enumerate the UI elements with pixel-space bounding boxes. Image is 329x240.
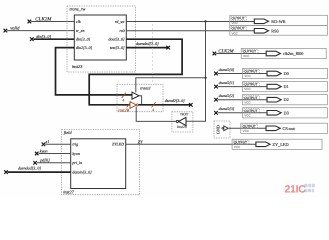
svg-text:OUTPUT: OUTPUT xyxy=(243,124,256,128)
svg-text:VCC: VCC xyxy=(243,54,250,58)
svg-text:din[3..0]: din[3..0] xyxy=(76,37,91,42)
input stub s1 xyxy=(42,139,71,146)
svg-text:ZY_LED: ZY_LED xyxy=(272,142,288,147)
svg-text:datain[3..0]: datain[3..0] xyxy=(72,170,92,175)
svg-text:D0: D0 xyxy=(284,71,289,76)
svg-text:NOT: NOT xyxy=(180,113,188,117)
svg-text:D2: D2 xyxy=(284,97,289,102)
tri-state buffer upper (trans1) xyxy=(132,92,139,99)
svg-text:inst26: inst26 xyxy=(177,124,187,129)
transceiver trans1 (inst25) xyxy=(117,84,163,112)
svg-text:OUTPUT: OUTPUT xyxy=(234,140,247,144)
module trans_rw (inst23) xyxy=(67,6,135,72)
svg-text:OUTPUT: OUTPUT xyxy=(244,83,257,87)
svg-text:VCC: VCC xyxy=(244,100,251,104)
svg-text:21IC: 21IC xyxy=(285,183,307,195)
svg-text:VCC: VCC xyxy=(232,31,239,35)
svg-text:RS0: RS0 xyxy=(271,28,278,33)
input bus dsendad[3..0] xyxy=(4,166,71,174)
svg-text:D1: D1 xyxy=(284,84,289,89)
ground symbol GND xyxy=(214,121,230,138)
input bus din[3..0] xyxy=(30,34,74,41)
svg-text:4: 4 xyxy=(127,108,129,112)
output pin D3 xyxy=(243,108,328,118)
net stub dsend2[3] xyxy=(214,107,267,114)
svg-text:kyon: kyon xyxy=(40,148,48,153)
svg-text:dsend2[0]: dsend2[0] xyxy=(219,68,235,72)
svg-text:dsend2[2]: dsend2[2] xyxy=(219,94,235,98)
net stub dsend2[1] xyxy=(214,81,267,88)
svg-text:inst27: inst27 xyxy=(63,189,75,194)
svg-text:CLK2M: CLK2M xyxy=(218,49,234,55)
svg-text:D3: D3 xyxy=(284,110,289,115)
svg-text:4: 4 xyxy=(152,108,154,112)
wire enable to trans1 upper buffer xyxy=(136,78,206,93)
sheet border dashed line xyxy=(152,24,154,84)
output pin clk2m_f000 xyxy=(241,48,326,58)
svg-text:trig: trig xyxy=(72,142,78,147)
svg-text:dsend2[1]: dsend2[1] xyxy=(219,81,235,85)
input stub pd[0] xyxy=(33,158,70,165)
svg-text:clk2m_f000: clk2m_f000 xyxy=(283,51,304,56)
svg-text:pri_in: pri_in xyxy=(71,160,82,165)
svg-text:VCC: VCC xyxy=(244,113,251,117)
output pin D2 xyxy=(243,95,328,105)
svg-text:trans1: trans1 xyxy=(140,86,151,91)
input stub CLK2M xyxy=(28,17,75,24)
svg-text:OUTPUT: OUTPUT xyxy=(243,50,256,54)
svg-text:OUTPUT: OUTPUT xyxy=(232,17,245,21)
svg-text:inst23: inst23 xyxy=(72,64,84,69)
wire rd_wr to output pin xyxy=(126,20,254,22)
wire rd_wr control vertical xyxy=(186,22,207,122)
wire NOT output to lower buffer enable xyxy=(136,107,176,122)
bus width slash 4 on dsend2 output xyxy=(152,102,156,112)
svg-text:field: field xyxy=(64,130,73,135)
svg-text:OUTPUT: OUTPUT xyxy=(232,27,245,31)
wire GND to CS-out pin xyxy=(228,127,266,129)
svg-text:rd_wr: rd_wr xyxy=(115,19,125,24)
svg-text:VCC: VCC xyxy=(243,129,250,133)
svg-text:kyon: kyon xyxy=(72,151,80,156)
output pin ZY_LED xyxy=(232,139,322,149)
output pin CS-out xyxy=(241,123,328,133)
svg-text:RD-WR: RD-WR xyxy=(271,19,285,24)
output pin D0 xyxy=(243,68,328,78)
tri-state buffer lower (trans1, selected) xyxy=(130,102,138,109)
output pin RD-WR xyxy=(230,15,328,25)
net stub dsended[3..0] from test output xyxy=(126,41,170,50)
svg-text:CLK2M: CLK2M xyxy=(35,17,52,23)
svg-text:ZYLED: ZYLED xyxy=(112,142,124,147)
svg-text:test[3..0]: test[3..0] xyxy=(110,45,125,50)
bus din2[3..0] loop to trans1 xyxy=(56,48,133,95)
net stub dsend2[0] xyxy=(214,68,267,75)
bus width slash 4 on dout input xyxy=(127,102,131,112)
bus width slash 4 on din2 input xyxy=(122,93,126,103)
svg-text:VCC: VCC xyxy=(232,21,239,25)
svg-text:pd[0]: pd[0] xyxy=(39,158,50,163)
svg-text:s1: s1 xyxy=(46,139,50,144)
svg-text:VCC: VCC xyxy=(244,87,251,91)
input stub kyon xyxy=(35,148,71,155)
watermark 21IC xyxy=(285,183,315,195)
svg-text:OUTPUT: OUTPUT xyxy=(244,70,257,74)
svg-text:OUTPUT: OUTPUT xyxy=(244,109,257,113)
svg-text:valid: valid xyxy=(10,26,20,31)
net stub dsend2[2] xyxy=(214,94,267,101)
svg-text:VCC: VCC xyxy=(244,74,251,78)
wire upper buffer output xyxy=(139,96,142,105)
bus dout[3..0] loop to trans1 xyxy=(89,39,182,105)
svg-text:tr_en: tr_en xyxy=(76,28,84,33)
svg-text:dout[3..0]: dout[3..0] xyxy=(108,37,125,42)
svg-text:GND: GND xyxy=(216,125,221,134)
svg-text:dsendad[3..0]: dsendad[3..0] xyxy=(18,166,41,171)
svg-text:din[3..0]: din[3..0] xyxy=(36,34,51,39)
module field (inst27) xyxy=(62,130,140,195)
input stub valid xyxy=(4,26,75,33)
input stub CLK2M (second) xyxy=(213,49,267,56)
svg-text:clk: clk xyxy=(76,19,81,24)
svg-text:trans_rw: trans_rw xyxy=(70,6,86,11)
output pin D1 xyxy=(243,82,328,92)
svg-text:VCC: VCC xyxy=(234,145,241,149)
svg-text:4: 4 xyxy=(122,99,124,103)
wire rs0 to output pin xyxy=(126,30,254,32)
wire ZY xyxy=(126,139,256,144)
svg-text:ZY: ZY xyxy=(138,139,143,144)
output pin RS0 xyxy=(230,25,328,35)
svg-text:dsend2[3]: dsend2[3] xyxy=(219,107,235,111)
svg-text:dsended[3..0]: dsended[3..0] xyxy=(136,41,159,46)
svg-text:CS-out: CS-out xyxy=(283,126,296,131)
svg-text:dsend2[3..0]: dsend2[3..0] xyxy=(165,99,185,103)
NOT gate (inst26) xyxy=(172,112,193,132)
svg-text:din2[3..0]: din2[3..0] xyxy=(76,45,93,50)
net dsend2[3..0] output of trans1 xyxy=(138,99,192,106)
svg-text:OUTPUT: OUTPUT xyxy=(244,96,257,100)
svg-text:rs0: rs0 xyxy=(119,28,124,33)
